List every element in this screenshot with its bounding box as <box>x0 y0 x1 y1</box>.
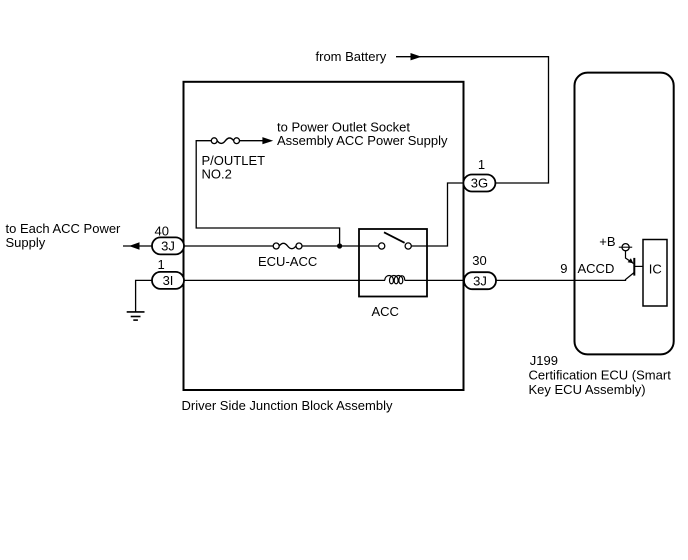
svg-text:Supply: Supply <box>6 235 46 250</box>
svg-text:ECU-ACC: ECU-ACC <box>258 254 317 269</box>
svg-text:J199: J199 <box>530 353 558 368</box>
svg-text:40: 40 <box>155 223 169 238</box>
svg-text:1: 1 <box>478 157 485 172</box>
relay switch contact circles <box>379 243 412 249</box>
svg-text:from Battery: from Battery <box>316 49 387 64</box>
svg-text:3J: 3J <box>161 239 175 254</box>
relay coil ACC <box>385 276 405 284</box>
svg-text:1: 1 <box>158 257 165 272</box>
connector 3I (1) <box>152 272 184 289</box>
svg-text:+B: +B <box>599 234 615 249</box>
connector 3G (1) <box>463 175 495 192</box>
wire 3I to relay coil <box>184 279 385 281</box>
svg-text:Key ECU Assembly): Key ECU Assembly) <box>529 382 646 397</box>
fuse ECU-ACC <box>273 243 302 249</box>
transistor base wire to IC <box>634 265 643 267</box>
wire to Each ACC Power Supply (left of 3J) <box>123 245 152 247</box>
svg-text:Assembly ACC Power Supply: Assembly ACC Power Supply <box>277 133 448 148</box>
wire 3G to relay switch (riser) <box>411 183 463 246</box>
wire 3J to ECU-ACC fuse <box>184 245 273 247</box>
wire coil to 3J(30) <box>405 279 465 281</box>
relay switch blade <box>384 232 405 243</box>
junction block box (Driver Side Junction Block Assembly) <box>184 82 464 390</box>
relay box ACC <box>359 229 427 297</box>
svg-text:3I: 3I <box>163 273 174 288</box>
fuse P/OUTLET NO.2 <box>211 138 239 144</box>
node junction dot <box>337 243 342 248</box>
wire ECU-ACC fuse to relay switch <box>302 245 379 247</box>
transistor Q (PNP) emitter lead from +B <box>626 251 634 264</box>
ground <box>127 312 145 320</box>
wire to Power Outlet Socket arrow <box>240 140 264 142</box>
transistor bar <box>633 258 635 276</box>
svg-text:3J: 3J <box>473 273 487 288</box>
svg-text:ACCD: ACCD <box>578 261 615 276</box>
transistor emitter arrowhead <box>628 258 634 263</box>
connector 3J (30) <box>464 272 496 289</box>
svg-text:Driver Side Junction Block Ass: Driver Side Junction Block Assembly <box>182 398 393 413</box>
arrow to Each ACC Power Supply <box>129 242 140 249</box>
svg-text:IC: IC <box>649 261 662 276</box>
arrow to Power Outlet Socket <box>262 137 273 144</box>
IC box <box>643 240 667 307</box>
svg-text:3G: 3G <box>471 176 488 191</box>
wire from Battery (top run, right, down to 3G) <box>396 57 549 183</box>
svg-text:NO.2: NO.2 <box>202 167 232 182</box>
svg-text:ACC: ACC <box>372 304 399 319</box>
+B terminal circle <box>619 246 632 248</box>
wire 3I to ground <box>136 280 152 312</box>
wire branch to P/OUTLET NO.2 fuse <box>196 141 339 246</box>
svg-text:30: 30 <box>472 253 486 268</box>
wire 3J(30) to transistor (ACCD pin 9) <box>496 273 635 281</box>
arrow from Battery <box>411 53 422 60</box>
ECU box J199 <box>575 73 674 355</box>
connector 3J (40) <box>152 237 184 254</box>
svg-text:9: 9 <box>560 261 567 276</box>
svg-text:Certification ECU (Smart: Certification ECU (Smart <box>529 368 672 383</box>
